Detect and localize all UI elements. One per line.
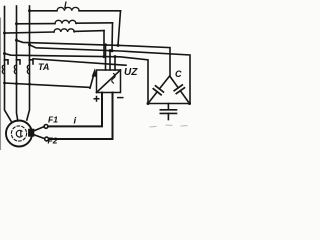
capacitor C bottom branch <box>160 104 176 120</box>
inductor L2 <box>17 23 113 24</box>
op-amp U1 rectifier UZ box <box>97 70 121 93</box>
wire rectifier input stub 3 <box>114 57 116 70</box>
wire UZ ac squiggle <box>112 74 115 84</box>
node bus phase A <box>28 83 31 86</box>
node phase A tap bus2 <box>28 43 31 46</box>
wire phase C vertical <box>4 7 6 61</box>
node capacitor bottom-left <box>147 102 150 105</box>
wire L3 output vertical <box>103 31 105 57</box>
node bus phase B <box>15 82 18 85</box>
label plus <box>94 96 100 102</box>
svg-text:TA: TA <box>38 62 49 72</box>
motor center glyph <box>16 130 22 137</box>
wire capacitor bottom <box>148 103 190 105</box>
svg-text:UZ: UZ <box>124 67 138 78</box>
node stub2 junction <box>109 49 112 52</box>
node L3-bus junction <box>103 55 106 58</box>
transformer TA phase C <box>2 60 8 83</box>
wire rectifier input stub 1 <box>105 45 107 70</box>
scan edge mark left <box>0 18 2 150</box>
svg-text:C: C <box>175 69 182 79</box>
motor M body <box>6 121 32 147</box>
inductor L3 <box>5 31 105 33</box>
transformer TA phase A <box>27 60 33 83</box>
svg-text:F2: F2 <box>48 136 58 146</box>
node stub3 junction <box>114 55 117 58</box>
label minus <box>117 97 124 99</box>
wire L1 output vertical <box>118 11 121 46</box>
node L2-bus junction <box>111 49 114 52</box>
wire control arrow to UZ <box>90 68 97 88</box>
wire DC minus <box>49 93 113 140</box>
wire DC plus <box>48 93 102 127</box>
wire brush to F1 <box>34 127 44 131</box>
terminal F2 <box>45 137 49 141</box>
node phase C tap bus3 <box>3 52 6 55</box>
wire phase B vertical <box>16 6 18 60</box>
wire TA secondary bus 2 <box>33 59 126 66</box>
node phase A tap L1 <box>28 9 31 12</box>
wire bus to capacitor left <box>5 54 149 104</box>
wire bus to capacitor apex <box>17 40 171 76</box>
motor rotor dashed circle <box>11 126 26 141</box>
wire UZ diagonal <box>97 70 121 93</box>
svg-text:F1: F1 <box>48 115 58 125</box>
node L1-bus junction <box>117 44 120 47</box>
wire TA secondary bus <box>5 83 91 87</box>
node bus phase C <box>3 82 6 85</box>
wire L2 output vertical <box>111 23 114 51</box>
svg-text:i: i <box>74 116 77 127</box>
wire phase A vertical <box>29 6 31 60</box>
node phase C tap L3 <box>3 32 6 35</box>
svg-text:L: L <box>64 0 70 10</box>
terminal F1 <box>44 125 48 129</box>
scan smudge bottom right <box>150 125 187 127</box>
capacitor C left branch <box>148 76 169 103</box>
transformer TA phase B <box>14 60 20 83</box>
wire rectifier input stub 2 <box>109 51 111 70</box>
motor M stator leads <box>5 83 12 121</box>
wire bus to capacitor right <box>30 45 191 104</box>
motor brush block <box>29 129 34 136</box>
capacitor C right branch <box>170 76 189 103</box>
wire brush to F2 <box>34 135 45 139</box>
inductor L1 <box>30 10 121 12</box>
node capacitor bottom-right <box>188 102 191 105</box>
node phase B tap bus1 <box>15 39 18 42</box>
node stub1 junction <box>104 43 107 46</box>
node phase B tap L2 <box>15 22 18 25</box>
